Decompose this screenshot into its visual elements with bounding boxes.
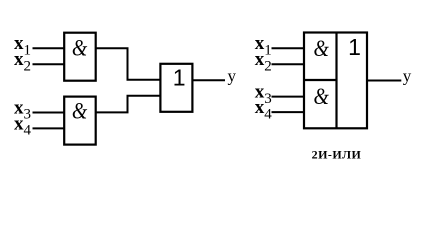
wire AND1 output to OR input: [96, 48, 161, 80]
combined 2AND-OR gate body: [304, 33, 367, 129]
wire AND2 output to OR input: [96, 96, 161, 113]
wire OR output: [192, 79, 225, 81]
svg-text:&: &: [72, 35, 88, 61]
wire x3 input (right): [272, 96, 305, 98]
wire output (right): [367, 80, 401, 82]
wire x4 input (right): [272, 111, 305, 113]
svg-text:&: &: [313, 84, 329, 110]
svg-text:&: &: [313, 36, 329, 62]
wire x3 input: [33, 112, 65, 114]
wire x2 input: [33, 63, 65, 65]
OR gate DD3: [160, 64, 192, 112]
divider vertical: [335, 33, 337, 129]
AND gate DD2 (left bottom): [64, 97, 96, 145]
wire x4 input: [33, 127, 65, 129]
wire x1 input: [33, 47, 65, 49]
AND gate DD1 (left top): [64, 33, 96, 81]
svg-text:&: &: [72, 98, 88, 124]
wire x1 input (right): [272, 47, 305, 49]
svg-text:y: y: [403, 67, 412, 86]
svg-text:2И-ИЛИ: 2И-ИЛИ: [312, 148, 362, 162]
svg-text:1: 1: [173, 65, 186, 91]
wire x2 input (right): [272, 63, 305, 65]
svg-text:y: y: [228, 67, 237, 86]
svg-text:1: 1: [348, 34, 361, 60]
divider horizontal: [304, 79, 337, 81]
